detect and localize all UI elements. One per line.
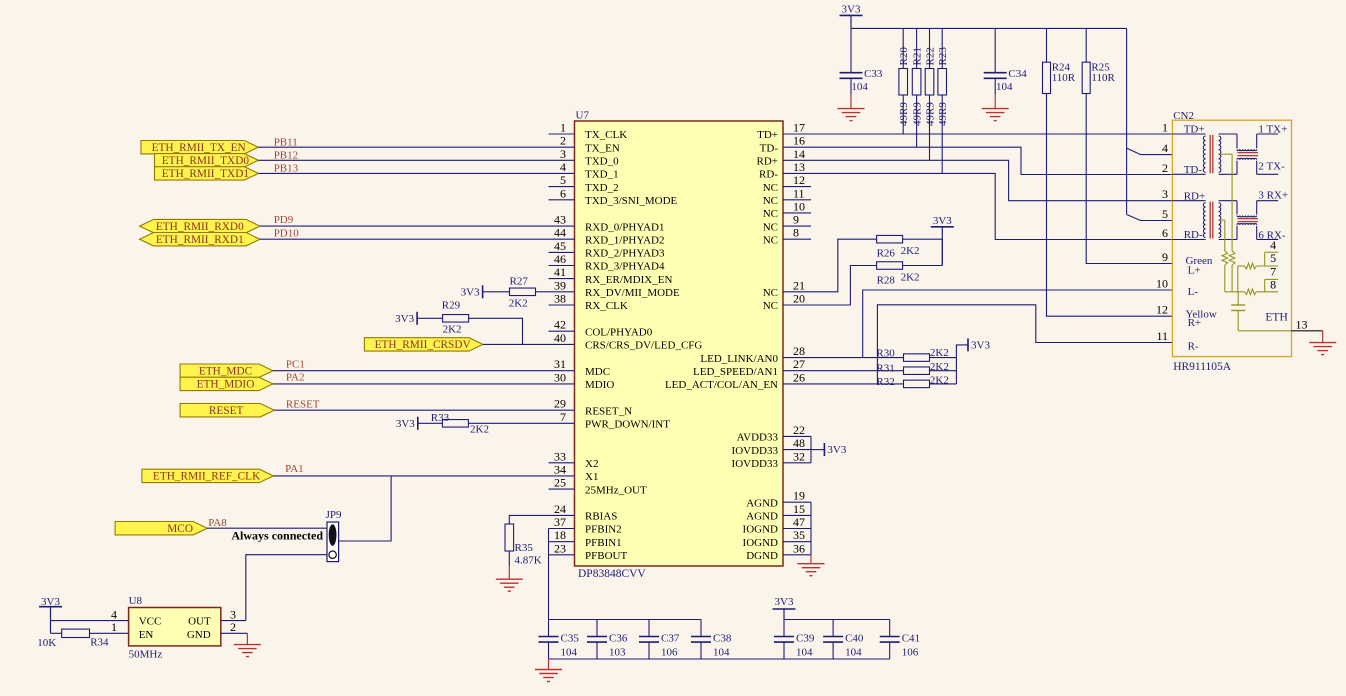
svg-text:3V3: 3V3: [396, 418, 415, 430]
U7 pin 47 IOGND: [783, 528, 811, 530]
svg-text:C37: C37: [661, 633, 680, 645]
svg-text:RESET: RESET: [286, 398, 320, 410]
port ETH_MDIO: [180, 377, 273, 390]
wire PD10 net (RXD_1): [260, 238, 549, 240]
U7 pin 12 NC: [783, 186, 811, 188]
U8 pin 3 OUT: [221, 620, 246, 622]
U7 pin 39 RX_DV/MII_MODE: [549, 291, 575, 293]
port ETH_RMII_TXD0: [155, 154, 259, 167]
U8 pin 2 GND: [221, 632, 248, 634]
U7 pin 7 PWR_DOWN/INT: [549, 422, 575, 424]
svg-text:104: 104: [796, 647, 813, 659]
ground below C34: [994, 95, 996, 109]
U7 pin 6 TXD_3/SNI_MODE: [549, 199, 575, 201]
resistor R32 2K2: [904, 380, 930, 388]
svg-text:106: 106: [902, 647, 919, 659]
svg-text:49R9: 49R9: [912, 102, 924, 126]
svg-text:R32: R32: [876, 376, 894, 388]
wire LED_ACT U7 pin26 to R32: [783, 383, 904, 385]
port ETH_MDC: [180, 364, 273, 377]
svg-text:MDC: MDC: [585, 366, 610, 378]
resistor R33 2K2 pull-up on PWR_DOWN: [442, 420, 468, 428]
ground at capacitor rail: [548, 659, 550, 670]
U7 pin 15 AGND: [783, 514, 811, 516]
resistor R28 2K2: [877, 262, 903, 270]
svg-text:PFBIN2: PFBIN2: [585, 524, 622, 536]
wire LED_SPEED U7 pin27 to R31: [783, 370, 904, 372]
svg-text:R28: R28: [877, 275, 896, 287]
wire 3V3 bus down to R28: [941, 239, 943, 265]
U7 pin 35 IOGND: [783, 541, 811, 543]
wire 3V3 rail to CN2 center taps (pins 4,5): [1127, 28, 1173, 154]
svg-text:2K2: 2K2: [509, 298, 528, 310]
U7 pin 45 RXD_2/PHYAD3: [549, 251, 575, 253]
svg-text:R+: R+: [1188, 317, 1202, 329]
port RESET: [180, 404, 274, 417]
svg-text:18: 18: [554, 528, 566, 542]
capacitor C36 103: [596, 620, 598, 637]
power 3V3 at R30-R32: [967, 338, 969, 351]
wire PA2 net (MDIO): [273, 383, 549, 385]
svg-text:ETH: ETH: [1265, 311, 1287, 323]
wire top rail C35-C38: [549, 619, 702, 621]
svg-text:36: 36: [793, 541, 805, 555]
U7 pin 5 TXD_2: [549, 186, 575, 188]
svg-text:RXD_3/PHYAD4: RXD_3/PHYAD4: [585, 261, 665, 273]
svg-text:104: 104: [845, 647, 862, 659]
transformer T2 RX primary winding: [1172, 200, 1205, 202]
U7 pin 18 PFBIN1: [549, 541, 575, 543]
svg-text:38: 38: [554, 292, 566, 306]
wire PA1 net (X1): [273, 475, 548, 477]
svg-text:RX_CLK: RX_CLK: [585, 300, 628, 312]
wire U7 pin21 to R26: [783, 239, 877, 292]
U7 pin 32 IOVDD33: [783, 462, 811, 464]
svg-text:104: 104: [996, 81, 1013, 93]
svg-text:13: 13: [793, 160, 805, 174]
ground below C33: [850, 95, 852, 109]
port MCO: [115, 522, 207, 535]
svg-text:JP9: JP9: [326, 509, 342, 521]
wire CN2 pin13 to ground: [1292, 330, 1323, 332]
resistor R26 2K2: [877, 235, 903, 243]
U8 pin 1 EN: [111, 632, 129, 634]
choke T1 windings: [1236, 134, 1238, 148]
svg-text:33: 33: [554, 449, 566, 463]
U7 pin 24 RBIAS: [549, 514, 575, 516]
port ETH_RMII_RXD1: [140, 233, 260, 246]
port ETH_RMII_REF_CLK: [142, 469, 273, 482]
svg-text:RBIAS: RBIAS: [585, 511, 617, 523]
svg-text:PA8: PA8: [208, 517, 227, 529]
wire RBIAS to R35: [509, 515, 548, 524]
U7 pin 44 RXD_1/PHYAD2: [549, 238, 575, 240]
transformer T1 secondary winding: [1219, 136, 1221, 172]
port ETH_RMII_RXD0: [140, 219, 260, 232]
U7 pin 11 NC: [783, 199, 811, 201]
wire RX- out: [1257, 239, 1279, 241]
svg-text:U8: U8: [129, 595, 143, 607]
wire R28 to 3V3 bus: [903, 265, 943, 267]
wire R35 to ground: [508, 551, 510, 566]
svg-text:X2: X2: [585, 458, 598, 470]
svg-text:R23: R23: [937, 47, 949, 66]
svg-text:DGND: DGND: [746, 550, 778, 562]
svg-text:TXD_1: TXD_1: [585, 169, 619, 181]
ground at CN2 pin13: [1322, 331, 1324, 343]
termination resistor on TX tap: [1231, 154, 1233, 251]
U7 pin 46 RXD_3/PHYAD4: [549, 265, 575, 267]
power 3V3 at R27: [482, 285, 484, 298]
svg-text:26: 26: [793, 370, 805, 384]
svg-text:ETH_RMII_RXD1: ETH_RMII_RXD1: [156, 234, 244, 246]
svg-text:PFBIN1: PFBIN1: [585, 537, 622, 549]
svg-text:C34: C34: [1008, 68, 1027, 80]
svg-text:AGND: AGND: [746, 511, 778, 523]
wire termination common rail: [1225, 291, 1245, 293]
svg-text:31: 31: [554, 357, 566, 371]
ground at U7 GND pins: [810, 555, 812, 564]
svg-text:IOVDD33: IOVDD33: [732, 458, 779, 470]
svg-text:AVDD33: AVDD33: [737, 432, 779, 444]
svg-text:27: 27: [793, 357, 805, 371]
U7 pin 37 PFBIN2: [549, 528, 575, 530]
resistor R20 49R9 series termination: [902, 28, 904, 68]
svg-text:ETH_RMII_TX_EN: ETH_RMII_TX_EN: [152, 142, 246, 154]
svg-text:R26: R26: [877, 248, 896, 260]
wire R27 to pin 39: [536, 291, 549, 293]
svg-text:23: 23: [554, 541, 566, 555]
wire PC1 net (MDC): [273, 370, 549, 372]
svg-text:104: 104: [713, 647, 730, 659]
svg-text:R22: R22: [925, 47, 937, 65]
svg-text:103: 103: [609, 647, 626, 659]
svg-text:3V3: 3V3: [827, 444, 846, 456]
svg-text:45: 45: [554, 239, 566, 253]
svg-text:7: 7: [1270, 264, 1276, 278]
svg-text:ETH_RMII_CRSDV: ETH_RMII_CRSDV: [375, 339, 472, 351]
choke T2 windings: [1236, 201, 1238, 215]
svg-text:R27: R27: [510, 276, 529, 288]
resistor R31 2K2: [904, 367, 930, 375]
capacitor C39 104: [783, 620, 785, 637]
U7 pin 48 IOVDD33: [783, 449, 811, 451]
svg-text:20: 20: [793, 292, 805, 306]
wire bottom ground rail: [549, 658, 890, 660]
svg-text:R-: R-: [1188, 341, 1199, 353]
U7 pin 41 RX_ER/MDIX_EN: [549, 278, 575, 280]
svg-text:42: 42: [554, 318, 566, 332]
svg-text:3V3: 3V3: [933, 215, 952, 227]
wire TX- out: [1257, 173, 1279, 175]
svg-text:2K2: 2K2: [901, 245, 920, 257]
svg-text:LED_ACT/COL/AN_EN: LED_ACT/COL/AN_EN: [665, 379, 778, 391]
svg-text:34: 34: [554, 462, 566, 476]
wire LED_LINK U7 pin28 to R30: [783, 357, 904, 359]
U7 pin 34 X1: [549, 475, 575, 477]
svg-text:4: 4: [560, 160, 566, 174]
svg-text:22: 22: [793, 423, 805, 437]
svg-text:ETH_RMII_TXD1: ETH_RMII_TXD1: [162, 168, 249, 180]
wire R24 to CN2 pin 12: [1047, 94, 1173, 317]
U7 pin 2 TX_EN: [549, 146, 575, 148]
svg-text:RESET: RESET: [209, 405, 244, 417]
svg-text:21: 21: [793, 278, 805, 292]
svg-text:3V3: 3V3: [395, 313, 414, 325]
svg-text:R30: R30: [876, 348, 895, 360]
wire RX+ out: [1257, 200, 1279, 202]
power 3V3 at R29: [416, 312, 418, 325]
U7 pin 22 AVDD33: [783, 435, 811, 437]
wire PA1 branch down to JP9: [339, 476, 392, 541]
svg-text:LED_LINK/AN0: LED_LINK/AN0: [700, 353, 778, 365]
svg-text:4: 4: [1270, 238, 1276, 252]
connector CN2 HR911105A body: [1172, 120, 1291, 356]
svg-text:5: 5: [1270, 251, 1276, 265]
svg-text:PA2: PA2: [286, 371, 305, 383]
svg-text:3V3: 3V3: [41, 596, 60, 608]
svg-text:10: 10: [1156, 277, 1168, 291]
capacitor C38 104: [700, 620, 702, 637]
svg-text:PFBOUT: PFBOUT: [585, 550, 627, 562]
power 3V3 at U8: [39, 606, 62, 608]
svg-text:3: 3: [1162, 187, 1168, 201]
svg-text:RXD_1/PHYAD2: RXD_1/PHYAD2: [585, 234, 664, 246]
svg-text:2K2: 2K2: [901, 272, 920, 284]
svg-text:OUT: OUT: [188, 616, 211, 628]
wire R25 to CN2 pin 9: [1086, 94, 1172, 264]
wire RD- net U7 pin13 to CN2 pin6: [783, 173, 1172, 239]
svg-text:2K2: 2K2: [930, 374, 949, 386]
U7 pin 3 TXD_0: [549, 159, 575, 161]
svg-text:17: 17: [793, 121, 805, 135]
svg-text:C41: C41: [902, 633, 920, 645]
resistor R22 49R9 series termination: [929, 28, 931, 68]
wire U7 pin20 to R28: [783, 266, 877, 306]
svg-text:110R: 110R: [1091, 72, 1115, 84]
svg-text:6: 6: [1162, 226, 1168, 240]
power 3V3 top rail symbol: [840, 14, 863, 16]
svg-text:35: 35: [793, 528, 805, 542]
svg-text:IOGND: IOGND: [743, 524, 778, 536]
svg-text:C40: C40: [845, 633, 864, 645]
svg-text:PB11: PB11: [274, 136, 298, 148]
svg-text:COL/PHYAD0: COL/PHYAD0: [585, 326, 653, 338]
capacitor C35 104: [548, 620, 550, 637]
resistor R34 10K: [62, 629, 90, 637]
svg-text:X1: X1: [585, 471, 598, 483]
wire top rail C39-C41: [784, 619, 890, 621]
svg-text:MCO: MCO: [167, 523, 193, 535]
svg-text:32: 32: [793, 449, 805, 463]
svg-text:14: 14: [793, 147, 805, 161]
wire PB13 net (TXD_1): [258, 172, 548, 174]
svg-text:NC: NC: [763, 300, 778, 312]
svg-text:3 RX+: 3 RX+: [1258, 189, 1288, 201]
svg-text:RXD_2/PHYAD3: RXD_2/PHYAD3: [585, 248, 665, 260]
wire R33 to pin 7: [468, 422, 548, 424]
resistor R30 2K2: [904, 354, 930, 362]
svg-text:1: 1: [1162, 121, 1168, 135]
svg-text:TXD_3/SNI_MODE: TXD_3/SNI_MODE: [585, 195, 678, 207]
wire 3V3 to R34: [51, 632, 62, 634]
wire cap to CN2 pin 13 ETH: [1238, 330, 1291, 332]
svg-text:C35: C35: [561, 633, 580, 645]
capacitor C40 104: [832, 620, 834, 637]
wire PD9 net (RXD_0): [260, 225, 549, 227]
svg-text:PD9: PD9: [274, 214, 294, 226]
svg-text:NC: NC: [763, 208, 778, 220]
wire RESET net: [274, 409, 548, 411]
svg-text:C38: C38: [713, 633, 732, 645]
svg-text:4.87K: 4.87K: [515, 554, 542, 566]
svg-text:39: 39: [554, 278, 566, 292]
svg-text:6: 6: [560, 186, 566, 200]
svg-text:AGND: AGND: [746, 497, 778, 509]
wire JP9 pin 3 to U8 OUT: [246, 555, 327, 621]
svg-text:VCC: VCC: [139, 616, 162, 628]
wire TX center tap: [1219, 153, 1233, 155]
svg-text:NC: NC: [763, 182, 778, 194]
wire PB11 net (TX_EN): [258, 146, 548, 148]
svg-text:RX_DV/MII_MODE: RX_DV/MII_MODE: [585, 287, 680, 299]
oscillator U8 50MHz body: [129, 608, 221, 646]
svg-text:12: 12: [1156, 303, 1168, 317]
capacitor termination (Bob Smith): [1237, 292, 1239, 305]
svg-text:16: 16: [793, 134, 805, 148]
port ETH_RMII_TX_EN: [141, 141, 258, 154]
svg-text:R35: R35: [515, 542, 534, 554]
svg-text:49R9: 49R9: [937, 102, 949, 126]
svg-text:1: 1: [111, 620, 117, 634]
svg-text:EN: EN: [139, 629, 154, 641]
U7 pin 36 DGND: [783, 554, 811, 556]
wire ladder joining pins 37,18,23: [548, 529, 550, 555]
termination resistor on RX tap: [1224, 220, 1226, 251]
svg-text:104: 104: [851, 81, 868, 93]
svg-text:2: 2: [560, 134, 566, 148]
power 3V3 at C39 rail: [773, 608, 796, 610]
U7 pin 10 NC: [783, 212, 811, 214]
svg-text:104: 104: [561, 647, 578, 659]
wire IOVDD to 3V3: [811, 449, 824, 451]
svg-text:ETH_RMII_RXD0: ETH_RMII_RXD0: [156, 221, 244, 233]
svg-text:RESET_N: RESET_N: [585, 405, 632, 417]
svg-text:3V3: 3V3: [971, 339, 990, 351]
svg-text:11: 11: [1156, 329, 1168, 343]
svg-text:TD-: TD-: [760, 142, 779, 154]
resistor R35 4.87K: [505, 524, 514, 551]
svg-text:TX_CLK: TX_CLK: [585, 129, 627, 141]
svg-text:3V3: 3V3: [461, 286, 480, 298]
svg-text:2: 2: [230, 620, 236, 634]
svg-text:TX_EN: TX_EN: [585, 142, 620, 154]
svg-text:Always connected: Always connected: [231, 528, 323, 542]
svg-text:ETH_RMII_TXD0: ETH_RMII_TXD0: [162, 155, 250, 167]
svg-text:15: 15: [793, 502, 805, 516]
svg-text:R31: R31: [876, 363, 894, 375]
svg-text:49R9: 49R9: [925, 102, 937, 126]
wire LED_ACT branch to CN2 pin11: [877, 305, 1172, 384]
svg-text:41: 41: [554, 265, 566, 279]
svg-text:49R9: 49R9: [898, 102, 910, 126]
svg-text:R33: R33: [431, 412, 450, 424]
svg-text:7: 7: [560, 410, 566, 424]
transformer T1 TX primary winding: [1172, 133, 1205, 135]
svg-text:19: 19: [793, 489, 805, 503]
svg-text:PB13: PB13: [274, 163, 299, 175]
svg-text:9: 9: [793, 213, 799, 227]
port ETH_RMII_TXD1: [155, 167, 259, 180]
svg-text:CRS/CRS_DV/LED_CFG: CRS/CRS_DV/LED_CFG: [585, 340, 702, 352]
U7 pin 40 CRS/CRS_DV/LED_CFG: [549, 343, 575, 345]
svg-text:ETH_RMII_REF_CLK: ETH_RMII_REF_CLK: [153, 471, 261, 483]
svg-text:106: 106: [661, 647, 678, 659]
svg-text:L-: L-: [1188, 286, 1199, 298]
svg-text:C36: C36: [609, 633, 628, 645]
wire LED_LINK branch to CN2 pin10: [863, 290, 1173, 358]
U7 pin 8 NC: [783, 238, 811, 240]
wire R26 to 3V3 bus: [903, 238, 943, 240]
svg-text:ETH_MDC: ETH_MDC: [199, 366, 252, 378]
svg-text:PB12: PB12: [274, 149, 298, 161]
svg-text:PWR_DOWN/INT: PWR_DOWN/INT: [585, 419, 670, 431]
svg-text:11: 11: [793, 186, 805, 200]
wire TX+ out: [1257, 133, 1279, 135]
wire R30-R32 to 3V3: [930, 357, 957, 359]
svg-text:R21: R21: [912, 47, 924, 65]
wire CRSDV to pin 40: [483, 343, 549, 345]
resistor R21 49R9 series termination: [916, 28, 918, 68]
svg-text:NC: NC: [763, 287, 778, 299]
IC U7 DP83848CVV body: [575, 121, 784, 566]
U7 pin 42 COL/PHYAD0: [549, 330, 575, 332]
wire ladder pins 19,15,47,35,36 GND: [810, 502, 812, 555]
svg-text:DP83848CVV: DP83848CVV: [578, 568, 646, 580]
U7 pin 25 25MHz_OUT: [549, 488, 575, 490]
svg-text:TXD_0: TXD_0: [585, 156, 619, 168]
U7 pin 43 RXD_0/PHYAD1: [549, 225, 575, 227]
svg-text:C39: C39: [796, 633, 815, 645]
svg-text:PD10: PD10: [274, 227, 300, 239]
resistor R25 110R LED supply: [1085, 28, 1087, 62]
svg-text:2: 2: [1162, 161, 1168, 175]
wire TD- net U7 pin16 to CN2 pin2: [783, 147, 1172, 174]
svg-text:48: 48: [793, 436, 805, 450]
svg-text:4: 4: [1162, 141, 1168, 155]
capacitor C41 106: [889, 620, 891, 637]
svg-text:GND: GND: [187, 629, 211, 641]
wire R34 to U8 EN: [90, 632, 111, 634]
resistor R24 110R LED supply: [1046, 28, 1048, 62]
power 3V3 at R26/R28: [931, 226, 954, 228]
ground at U8 GND: [246, 633, 248, 644]
svg-text:RXD_0/PHYAD1: RXD_0/PHYAD1: [585, 221, 664, 233]
svg-text:C33: C33: [864, 68, 883, 80]
wire PB12 net (TXD_0): [258, 159, 548, 161]
svg-text:10K: 10K: [37, 637, 56, 649]
capacitor C34 104: [994, 28, 996, 72]
U7 pin 4 TXD_1: [549, 172, 575, 174]
U7 pin 1 TX_CLK: [549, 133, 575, 135]
svg-text:R29: R29: [442, 299, 461, 311]
U7 pin 38 RX_CLK: [549, 304, 575, 306]
wire MCO to JP9 pin 1: [207, 527, 327, 529]
wire ladder pins 22,48,32 AVDD/IOVDD: [810, 436, 812, 462]
svg-text:ETH_MDIO: ETH_MDIO: [197, 379, 255, 391]
svg-text:13: 13: [1296, 318, 1308, 332]
resistor R23 49R9 series termination: [941, 28, 943, 68]
